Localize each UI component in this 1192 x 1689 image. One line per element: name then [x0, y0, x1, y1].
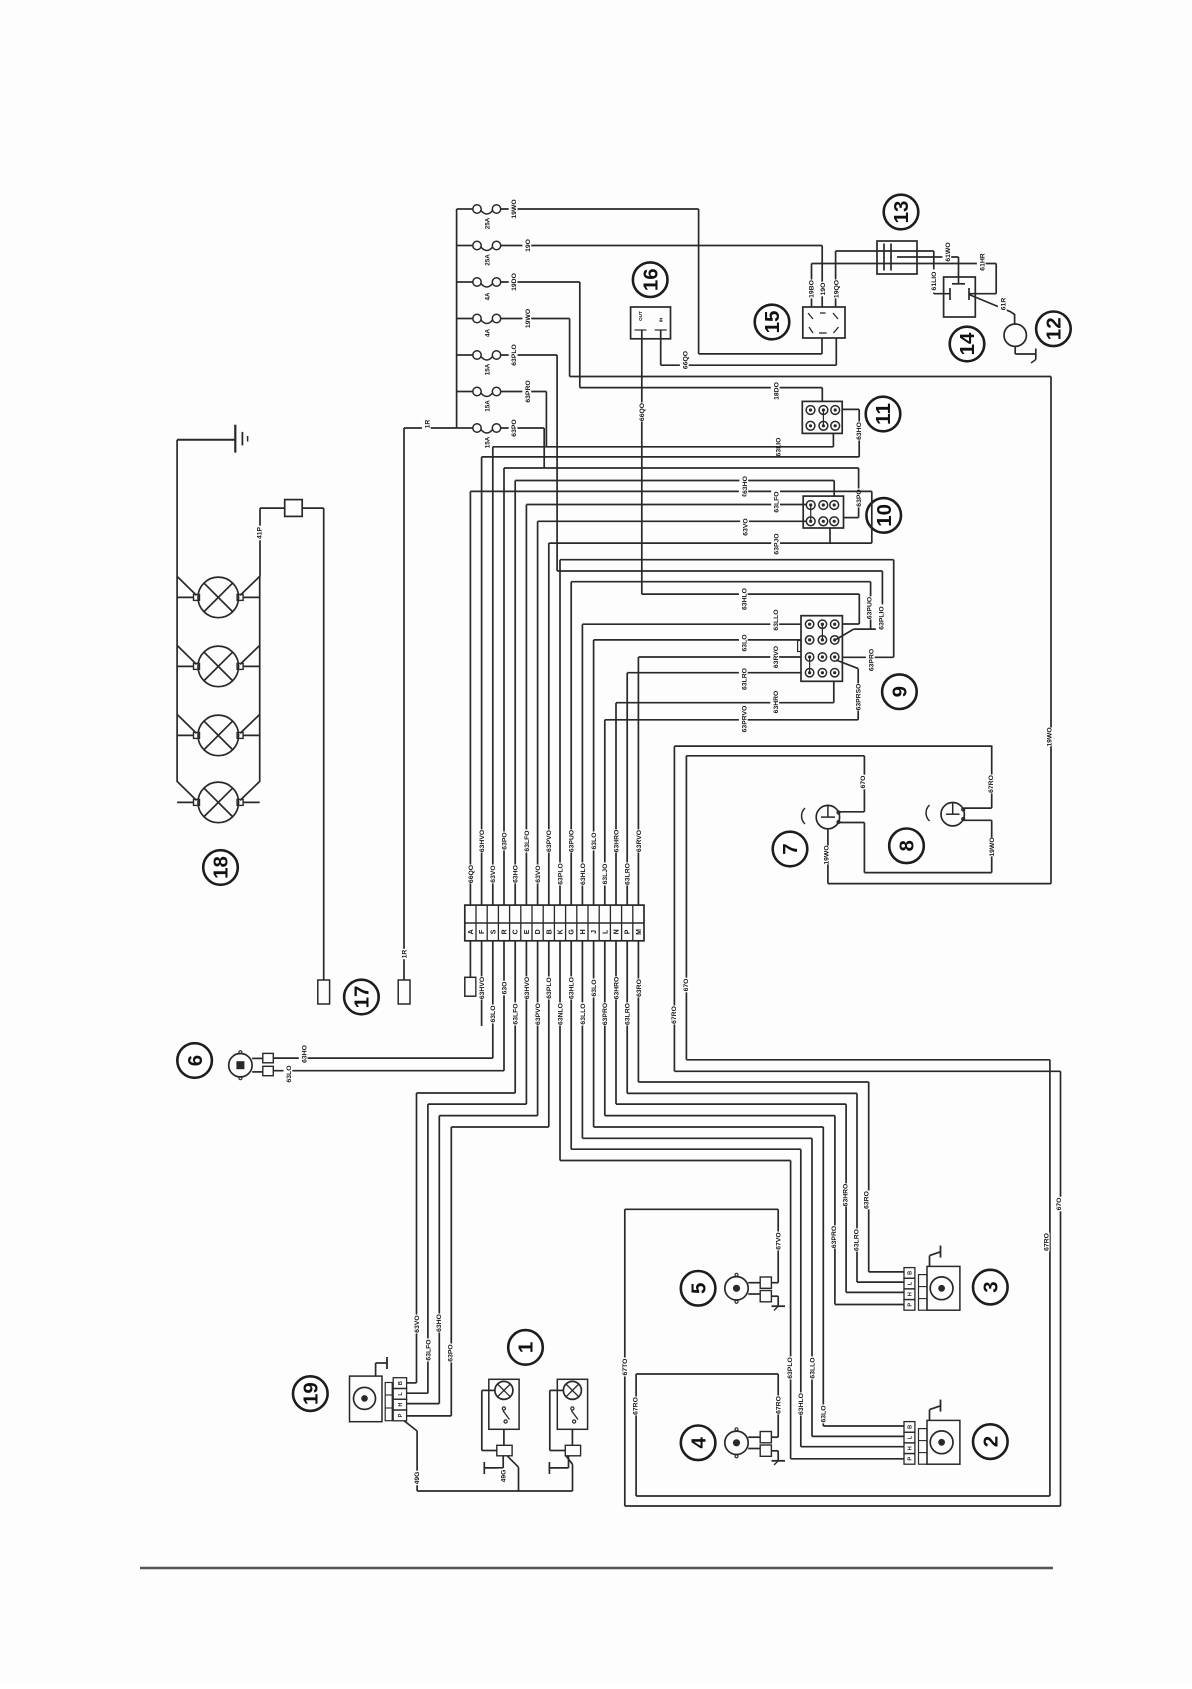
svg-text:63RVO: 63RVO [636, 830, 643, 852]
motor 3 [927, 1266, 960, 1310]
wire 67VO to 5 [625, 1208, 778, 1210]
wire lamp feed left [177, 781, 196, 800]
svg-text:1: 1 [515, 1342, 538, 1353]
callout 8 [889, 829, 924, 864]
svg-text:15A: 15A [484, 436, 491, 448]
connector stack 19 [393, 1378, 406, 1389]
svg-text:63HRO: 63HRO [773, 691, 780, 714]
fuse F4 4A [457, 318, 473, 320]
svg-text:66QO: 66QO [682, 351, 689, 369]
label 63PVO [533, 1002, 543, 1025]
ground at 2 [929, 1410, 931, 1421]
switch 15 box [803, 307, 845, 338]
wire col G vertical [570, 582, 572, 905]
svg-text:63LFO: 63LFO [426, 1339, 433, 1360]
svg-text:H: H [398, 1403, 404, 1407]
label 63HLO [566, 976, 576, 999]
svg-text:61HR: 61HR [979, 253, 986, 270]
terminal C [513, 929, 520, 934]
motor 5 [725, 1277, 748, 1300]
lamp 1 [495, 1381, 513, 1399]
wire 66QO col A staircase [470, 490, 871, 492]
wire 66QO from 16 IN to 15 [660, 330, 662, 365]
wire col F stub [481, 941, 483, 1026]
callout 19 [293, 1376, 328, 1411]
svg-text:63LRO: 63LRO [625, 1003, 632, 1025]
callout 18 [203, 850, 238, 885]
wire 63VO col D to 10 [538, 520, 806, 522]
svg-text:49G: 49G [414, 1472, 421, 1485]
svg-text:63LRO: 63LRO [853, 1229, 860, 1251]
terminal G [569, 929, 576, 935]
svg-text:67RO: 67RO [776, 1396, 783, 1414]
wire 63PO col B to 19 [548, 941, 550, 1127]
wire 63LO from 6 [273, 1070, 504, 1072]
wire 63LRO to 9 row4 [627, 672, 801, 674]
wire lamp stub [177, 801, 193, 803]
svg-text:63HRO: 63HRO [613, 977, 620, 1000]
wire col L vertical [604, 720, 606, 905]
svg-text:H: H [908, 1446, 914, 1450]
label 63PRO [600, 1002, 610, 1025]
label 63PLO [555, 862, 565, 885]
terminal R [502, 929, 509, 934]
wire lamp feed left [177, 645, 196, 664]
svg-text:19WO: 19WO [525, 309, 532, 328]
terminal M [636, 929, 643, 935]
svg-text:1R: 1R [401, 950, 408, 959]
wire 63LLO to 9 row1 [582, 623, 801, 625]
device 6 connector [252, 1057, 263, 1059]
wire 63PJO to 10 bottom-middle [829, 528, 831, 543]
terminal boxes 19 [385, 1383, 392, 1421]
svg-text:63PVO: 63PVO [546, 830, 553, 852]
wire 63PLIO loop to 9 row2 [557, 570, 882, 572]
svg-text:R: R [502, 929, 509, 934]
svg-text:63LO: 63LO [490, 1006, 497, 1023]
svg-text:66QO: 66QO [639, 403, 646, 421]
label 63PLO [544, 976, 554, 999]
label 63HRO [611, 829, 621, 852]
wire col K vertical [559, 560, 561, 905]
svg-text:63PRVO: 63PRVO [741, 706, 748, 733]
callout 14 [950, 327, 985, 362]
connector stack 2 [904, 1422, 915, 1433]
label 63LFO [521, 829, 531, 852]
wire through 13 upper [836, 250, 934, 252]
label 63O [499, 981, 509, 996]
svg-text:63LO: 63LO [741, 635, 748, 652]
svg-text:63LO: 63LO [821, 1406, 828, 1423]
lamp 18-3 [198, 715, 239, 756]
svg-text:63LO: 63LO [591, 980, 598, 997]
svg-text:61LIO: 61LIO [931, 272, 938, 291]
svg-text:63VO: 63VO [414, 1315, 421, 1332]
wire 61R 14 to horn [969, 295, 1015, 325]
wire 4 feed [771, 1436, 778, 1438]
label 63NLO [555, 1002, 565, 1025]
svg-text:63LJO: 63LJO [602, 864, 609, 885]
terminal strip [465, 905, 644, 941]
svg-text:N: N [614, 929, 621, 934]
svg-text:63HO: 63HO [436, 1314, 443, 1332]
lamp 18-1 [198, 577, 239, 618]
fuse F5 15A [457, 354, 473, 356]
connector 17 left half [318, 980, 330, 1004]
callout 16 [633, 262, 668, 297]
ground at 19 [375, 1363, 377, 1376]
svg-text:IN: IN [658, 317, 663, 322]
motor 4 [725, 1431, 748, 1454]
svg-text:15A: 15A [484, 400, 491, 412]
svg-text:63HO: 63HO [856, 422, 863, 440]
wire 63RVO to 9 row3 [638, 656, 801, 658]
connector below 1 [565, 1445, 580, 1456]
svg-text:67O: 67O [860, 776, 867, 789]
wire terminal left lamp [502, 1456, 504, 1468]
svg-text:63RO: 63RO [864, 1191, 871, 1209]
connector 11 box [802, 401, 842, 433]
svg-text:E: E [524, 929, 531, 934]
svg-text:19O: 19O [820, 283, 827, 296]
connector 9 box [801, 616, 842, 682]
svg-text:63PUO: 63PUO [569, 830, 576, 852]
svg-text:10: 10 [873, 504, 896, 527]
svg-text:B: B [546, 929, 553, 934]
callout 5 [681, 1271, 716, 1306]
svg-text:66QO: 66QO [468, 865, 475, 883]
callout 2 [973, 1424, 1008, 1459]
svg-text:63PLIO: 63PLIO [878, 606, 885, 629]
label 63HVO [477, 976, 487, 999]
label 63LO [488, 1005, 498, 1024]
svg-text:67TO: 67TO [622, 1359, 629, 1376]
svg-text:63LFO: 63LFO [774, 491, 781, 512]
switch contact 1 [571, 1407, 574, 1410]
wire col A to connector [469, 941, 471, 978]
svg-text:61R: 61R [1000, 298, 1007, 311]
svg-text:19WO: 19WO [511, 199, 518, 218]
wire 63HO col F to 11 [482, 456, 860, 458]
wire 63HO from 11 top-right [842, 408, 859, 410]
svg-text:63RO: 63RO [636, 979, 643, 997]
callout 13 [884, 195, 919, 230]
relay 14 box [944, 277, 976, 317]
label 66QO [465, 865, 475, 884]
terminal K [558, 929, 565, 934]
fuse F7 15A [457, 427, 473, 429]
wire 63LLO col H to 2 [581, 941, 583, 1139]
wire 63PRO col L to 3 [604, 941, 606, 1116]
svg-text:1R: 1R [424, 420, 431, 429]
wire col P vertical [626, 673, 628, 905]
svg-text:19: 19 [300, 1382, 323, 1405]
wire 63HRO col N to 3 [615, 941, 617, 1104]
fuse F3 4A [457, 281, 473, 283]
svg-text:2: 2 [980, 1436, 1003, 1447]
label 63HVO [521, 976, 531, 999]
terminal N [614, 929, 621, 934]
wire 61LIO 13 to 14 left pin [933, 251, 935, 294]
wire 63PO from fuse F7 [501, 427, 545, 429]
callout 6 [177, 1043, 212, 1078]
wire 63LFO col E to 10 [526, 504, 806, 506]
motor 19 box [350, 1376, 383, 1422]
wire 61HR 13 to 14 right pin [995, 264, 997, 294]
svg-text:25A: 25A [484, 217, 491, 229]
flasher 13 box [877, 241, 917, 274]
svg-text:63PRO: 63PRO [831, 1226, 838, 1248]
svg-text:67RO: 67RO [988, 775, 995, 793]
wire 63PLO from fuse F5 [501, 354, 557, 356]
callout 17 [344, 980, 379, 1015]
svg-text:63HVO: 63HVO [479, 977, 486, 999]
svg-text:18: 18 [210, 856, 233, 879]
label 63HO [510, 865, 520, 884]
wire lamp to connector [503, 1429, 505, 1445]
callout 9 [882, 674, 917, 709]
svg-text:63LRO: 63LRO [625, 863, 632, 885]
terminal D [535, 929, 542, 934]
svg-text:63PO: 63PO [511, 419, 518, 436]
wire horn to ground [1014, 346, 1016, 354]
label 63RVO [633, 829, 643, 852]
svg-text:G: G [569, 929, 576, 935]
terminal F [479, 929, 486, 934]
svg-text:19BO: 19BO [808, 280, 815, 298]
svg-text:67RO: 67RO [1043, 1233, 1050, 1251]
callout 11 [866, 397, 901, 432]
svg-text:63HLO: 63HLO [580, 863, 587, 885]
label 63LRO [622, 862, 632, 885]
svg-text:B: B [908, 1425, 914, 1429]
svg-text:63PLO: 63PLO [546, 977, 553, 999]
svg-text:13: 13 [890, 201, 913, 224]
svg-text:D: D [535, 929, 542, 934]
callout 12 [1036, 312, 1071, 347]
wire 67RO to 4 [636, 1373, 778, 1375]
lamp 18-2 [198, 646, 239, 687]
svg-text:K: K [558, 929, 565, 934]
fuse F1 25A [457, 208, 473, 210]
svg-text:6: 6 [184, 1055, 207, 1066]
wire lamp bypass [482, 1389, 495, 1391]
callout 4 [681, 1426, 716, 1461]
svg-text:63PRO: 63PRO [602, 1003, 609, 1025]
svg-text:A: A [468, 929, 475, 934]
svg-text:67RO: 67RO [671, 1006, 678, 1024]
fuse F2 25A [457, 245, 473, 247]
wire 19WO from fuse F1 [501, 208, 699, 210]
wire 63PUO loop [571, 581, 870, 583]
wire 41P down to lamps [259, 508, 261, 576]
wire through 13 lower [836, 263, 997, 265]
svg-text:63LO: 63LO [286, 1066, 293, 1083]
wire 19DO from fuse F3 [501, 281, 580, 283]
wire 66QO from 16 OUT [641, 330, 643, 594]
svg-text:63PJO: 63PJO [774, 533, 781, 554]
wire 63HO col C to 10 [515, 480, 834, 482]
wire 67O run to bottom right [686, 1059, 1050, 1061]
wire 63HO to 10 top-right [833, 481, 835, 497]
svg-text:19WO: 19WO [1046, 727, 1053, 746]
svg-text:H: H [580, 929, 587, 934]
fuse bus vertical [456, 209, 458, 428]
svg-text:15: 15 [761, 311, 784, 334]
svg-text:63PO: 63PO [501, 832, 508, 849]
label 63PUO [566, 829, 576, 852]
motor 2 [927, 1420, 960, 1464]
label 63VO [533, 865, 543, 884]
wire lamp stub [177, 734, 193, 736]
callout 1 [508, 1330, 543, 1365]
device 16 box (OUT/IN) [631, 307, 671, 339]
connector 4 [748, 1436, 760, 1438]
svg-text:4: 4 [687, 1437, 710, 1449]
svg-text:63LLO: 63LLO [580, 1003, 587, 1024]
svg-text:L: L [908, 1435, 914, 1439]
svg-text:63HRO: 63HRO [843, 1184, 850, 1207]
callout 10 [866, 498, 901, 533]
svg-text:16: 16 [639, 268, 662, 291]
svg-text:63PLO: 63PLO [557, 863, 564, 885]
wire 63RO col M to 3 [637, 941, 639, 1082]
lamp 18-4 [198, 782, 239, 823]
svg-text:67VO: 67VO [776, 1232, 783, 1249]
ground at 5 [771, 1295, 778, 1297]
wire col J vertical [593, 640, 595, 905]
svg-text:M: M [636, 929, 643, 935]
lamp-switch box 1 [557, 1379, 587, 1429]
svg-text:OUT: OUT [638, 311, 643, 321]
ground at 3 [929, 1256, 931, 1267]
connector 10 internal link [810, 505, 812, 521]
lamp 1 [563, 1381, 581, 1399]
svg-text:25A: 25A [484, 254, 491, 266]
wire 63PLO col K to 2 [559, 941, 561, 1161]
connector in 41P wire [260, 507, 285, 509]
fuse F6 15A [457, 391, 473, 393]
svg-text:14: 14 [956, 332, 979, 355]
label 63LLO [577, 1002, 587, 1025]
svg-text:19O: 19O [525, 239, 532, 252]
wire 63LFO col E to 19 [525, 941, 527, 1104]
svg-text:B: B [908, 1271, 914, 1275]
ground at 4 [771, 1450, 778, 1452]
svg-text:18DO: 18DO [773, 382, 780, 400]
wire 61WO from 13 [897, 256, 959, 258]
wire col H vertical [581, 624, 583, 905]
svg-text:L: L [398, 1392, 404, 1396]
wire 63PO col R [504, 467, 859, 469]
svg-text:5: 5 [687, 1283, 710, 1294]
wire 63LO col J to 2 [593, 941, 595, 1127]
svg-text:S: S [490, 929, 497, 934]
svg-text:63HLO: 63HLO [741, 588, 748, 610]
wire 19O from fuse F2 [501, 245, 823, 247]
svg-text:4A: 4A [484, 292, 491, 301]
terminal L [602, 929, 609, 934]
svg-text:63NLO: 63NLO [557, 1003, 564, 1025]
wire 19WO from 7 bottom [827, 829, 829, 884]
svg-text:63VO: 63VO [535, 865, 542, 882]
wire 63LO col R to 6 [503, 941, 505, 1071]
wire 49G from 19 [404, 1421, 417, 1431]
svg-text:J: J [591, 930, 598, 934]
svg-text:61WO: 61WO [945, 242, 952, 261]
svg-text:P: P [398, 1413, 404, 1417]
svg-text:63PRSO: 63PRSO [856, 684, 863, 711]
svg-text:B: B [398, 1381, 404, 1385]
connector 17 right half [398, 980, 410, 1004]
svg-text:63HVO: 63HVO [524, 977, 531, 999]
ground symbol top left [234, 425, 236, 453]
wire 66QO loop to 9 row1 right [642, 593, 860, 595]
svg-text:63HRO: 63HRO [613, 830, 620, 853]
switch 7 [816, 805, 839, 828]
svg-text:63PO: 63PO [447, 1344, 454, 1361]
connector below 1 [497, 1445, 512, 1456]
label 63LRO [622, 1002, 632, 1025]
connector 11 internal link [822, 410, 824, 426]
terminal S [490, 929, 497, 934]
svg-text:41P: 41P [257, 526, 264, 539]
svg-text:63HO: 63HO [742, 476, 749, 494]
callout 3 [973, 1270, 1008, 1305]
wire 7 lower pin [840, 822, 865, 824]
svg-text:63HLO: 63HLO [798, 1393, 805, 1415]
svg-text:63PVO: 63PVO [535, 1003, 542, 1025]
wire lamp feed left [177, 714, 196, 733]
wire 63PRO loop to 9 row3 [560, 559, 894, 561]
wire lamp stub [177, 665, 193, 667]
terminal P [625, 929, 632, 934]
wire 61WO to 14 top pin [958, 257, 960, 284]
svg-text:63LLO: 63LLO [773, 609, 780, 630]
wire 1R down to connector 17 [403, 428, 405, 980]
label 63LJO [600, 862, 610, 885]
wire lamp feed right [240, 576, 260, 595]
svg-text:7: 7 [779, 843, 802, 854]
connector 9 internal links [821, 624, 823, 640]
svg-text:63LFO: 63LFO [524, 830, 531, 851]
switch contact 1 [502, 1407, 505, 1410]
wire 67RO run to bottom right [674, 1070, 1060, 1072]
svg-text:63PUO: 63PUO [866, 597, 873, 619]
wire 63HO from 6 [273, 1057, 493, 1059]
connector 5 [748, 1282, 760, 1284]
terminal B [546, 929, 553, 934]
wire to connector 17 left [323, 508, 325, 980]
wire col M vertical [637, 657, 639, 905]
wire 63VO col C to 19 [514, 941, 516, 1093]
callout 7 [773, 832, 808, 867]
svg-text:9: 9 [889, 686, 912, 697]
callout 15 [755, 305, 790, 340]
svg-text:L: L [908, 1281, 914, 1285]
wire 19QO 13 to 15 pin3 [835, 251, 837, 307]
svg-text:63O: 63O [501, 982, 508, 995]
svg-text:67O: 67O [1056, 1198, 1063, 1211]
wire lamp bypass [550, 1389, 564, 1391]
svg-text:F: F [479, 929, 486, 934]
wire lamp feed right [240, 781, 260, 800]
svg-text:8: 8 [896, 840, 919, 851]
svg-text:49G: 49G [501, 1470, 508, 1483]
svg-text:63LRO: 63LRO [741, 668, 748, 690]
svg-text:63VO: 63VO [743, 518, 750, 535]
wire 63LIO col S to 11 [493, 446, 834, 448]
